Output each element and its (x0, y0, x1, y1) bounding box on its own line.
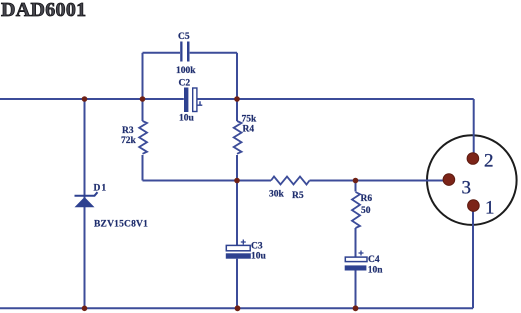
svg-text:100k: 100k (176, 66, 196, 76)
svg-text:R4: R4 (243, 125, 255, 135)
svg-text:C3: C3 (251, 241, 263, 251)
svg-text:R5: R5 (292, 191, 304, 201)
svg-text:30k: 30k (269, 190, 285, 200)
svg-text:R3: R3 (122, 126, 134, 136)
svg-text:C5: C5 (178, 32, 190, 42)
svg-text:75k: 75k (242, 115, 258, 125)
svg-text:10u: 10u (179, 114, 195, 124)
svg-text:C2: C2 (179, 79, 191, 89)
svg-text:10n: 10n (368, 265, 384, 275)
svg-text:3: 3 (462, 178, 472, 199)
svg-text:2: 2 (484, 151, 494, 172)
svg-text:D1: D1 (94, 184, 108, 194)
svg-text:DAD6001: DAD6001 (1, 0, 86, 21)
svg-text:R6: R6 (361, 194, 373, 204)
svg-text:72k: 72k (121, 136, 137, 146)
svg-text:1: 1 (485, 198, 495, 219)
svg-text:10u: 10u (251, 252, 267, 262)
svg-text:BZV15C8V1: BZV15C8V1 (94, 219, 148, 229)
svg-text:C4: C4 (368, 255, 380, 265)
svg-text:50: 50 (361, 206, 371, 216)
